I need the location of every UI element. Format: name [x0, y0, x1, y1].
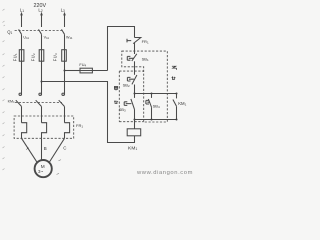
wire motor lead C [49, 138, 65, 163]
svg-text:Q1: Q1 [7, 29, 12, 35]
coil KM1 [127, 129, 141, 136]
contactor KM1 aux contact [173, 94, 177, 120]
svg-text:L2: L2 [38, 8, 42, 14]
wire L2 to fuse [41, 34, 43, 61]
wire L3 to fuse [64, 34, 66, 61]
switch Q1 pole 3 [62, 29, 65, 34]
svg-text:U11: U11 [23, 36, 29, 41]
wire motor lead B [41, 138, 43, 161]
supply arrow L2 [41, 12, 43, 15]
fuse FU2 [39, 50, 44, 62]
wire contact1 to FR [21, 106, 23, 122]
wire rail SB1 to SB2 [134, 61, 136, 75]
contactor KM1 main contact 2 [36, 93, 42, 106]
fuse FU1 [19, 50, 24, 62]
svg-text:FU4: FU4 [79, 63, 86, 68]
wire control return [42, 82, 135, 143]
wire rail SB3 to lower bus [134, 109, 136, 119]
thermal element 2 [42, 123, 47, 139]
wire rail FR to SB1 [134, 43, 136, 54]
border ticks left edge [3, 9, 6, 170]
svg-text:B: B [44, 146, 47, 151]
svg-text:KM1: KM1 [128, 145, 138, 151]
svg-text:FU1: FU1 [12, 53, 18, 61]
switch Q1 pole 1 [19, 29, 22, 34]
dashed box place B (yi di) [122, 51, 168, 122]
svg-text:3~: 3~ [38, 169, 44, 174]
pushbutton SB3 (start, place A) [124, 99, 134, 110]
svg-text:KM1: KM1 [8, 100, 16, 105]
svg-text:SB2: SB2 [123, 82, 130, 88]
label jia di (vertical) [114, 87, 118, 104]
thermal element 1 [22, 123, 27, 139]
pushbutton SB4 (start, place B) [146, 94, 152, 120]
thermal element 3 [65, 123, 70, 139]
svg-text:FU3: FU3 [52, 53, 58, 61]
svg-text:SB4: SB4 [153, 104, 160, 110]
fuse FU3 [62, 50, 67, 62]
pushbutton SB1 (stop, place B) [127, 54, 137, 61]
wire motor lead A [22, 138, 38, 162]
switch Q1 linkage [15, 30, 62, 32]
wire L1 top [21, 15, 23, 27]
switch Q1 pole 2 [39, 29, 42, 34]
svg-text:www.diangon.com: www.diangon.com [136, 170, 193, 176]
wire rail SB2 to node [134, 85, 136, 98]
stray mark right of motor 2 [57, 173, 60, 174]
motor M1 [35, 160, 52, 177]
stray mark right of motor 1 [59, 160, 62, 161]
svg-text:L1: L1 [20, 8, 24, 14]
node control return tap [41, 81, 43, 83]
wire control feed [65, 70, 81, 72]
fuse FU4 [80, 68, 92, 73]
dashed box place A (jia di) [119, 71, 143, 122]
thermal relay FR1 box [14, 116, 74, 138]
node control feed tap [64, 70, 66, 72]
contactor KM1 main contact 3 [59, 93, 65, 106]
wire L2 fuse to contact [41, 61, 43, 95]
label yi di (vertical) [172, 66, 177, 80]
pushbutton SB2 (stop, place A) [127, 75, 136, 84]
supply arrow L1 [21, 12, 23, 15]
contactor KM1 linkage [15, 102, 62, 104]
svg-text:W11: W11 [66, 36, 73, 41]
svg-text:KM1: KM1 [178, 101, 186, 107]
svg-text:FR1: FR1 [76, 123, 83, 129]
node upper bus [134, 93, 136, 95]
wire contact2 to FR [41, 106, 43, 122]
thermal relay FR1 NC contact [127, 38, 141, 44]
wire contact3 to FR [64, 106, 66, 122]
svg-text:V11: V11 [44, 36, 50, 41]
wire lower bus to coil [134, 120, 136, 129]
contactor KM1 main contact 1 [16, 93, 22, 106]
wire feed riser [108, 27, 135, 71]
svg-text:FR1: FR1 [142, 39, 149, 45]
wire lower bus [135, 119, 177, 121]
wire L2 top [41, 15, 43, 27]
wire upper bus [135, 93, 177, 95]
wire L1 fuse to contact [21, 61, 23, 95]
svg-text:SB1: SB1 [142, 57, 149, 63]
svg-text:C: C [63, 146, 66, 151]
wire L3 top [64, 15, 66, 27]
wire L1 to fuse [21, 34, 23, 61]
supply arrow L3 [64, 12, 66, 15]
svg-text:FU2: FU2 [30, 53, 36, 61]
wire L3 fuse to contact [64, 61, 66, 95]
